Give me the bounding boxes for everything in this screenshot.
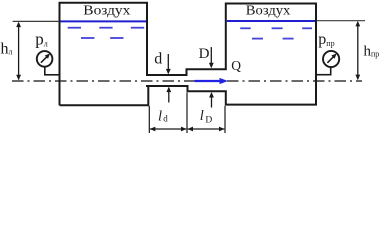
- svg-text:d: d: [154, 51, 162, 68]
- svg-text:Воздух: Воздух: [83, 3, 131, 18]
- svg-text:Q: Q: [231, 58, 241, 73]
- svg-text:l: l: [200, 108, 204, 124]
- svg-text:D: D: [205, 116, 212, 126]
- svg-text:d: d: [163, 114, 168, 124]
- svg-text:D: D: [199, 46, 210, 62]
- svg-text:l: l: [158, 109, 162, 125]
- svg-text:Воздух: Воздух: [246, 4, 291, 18]
